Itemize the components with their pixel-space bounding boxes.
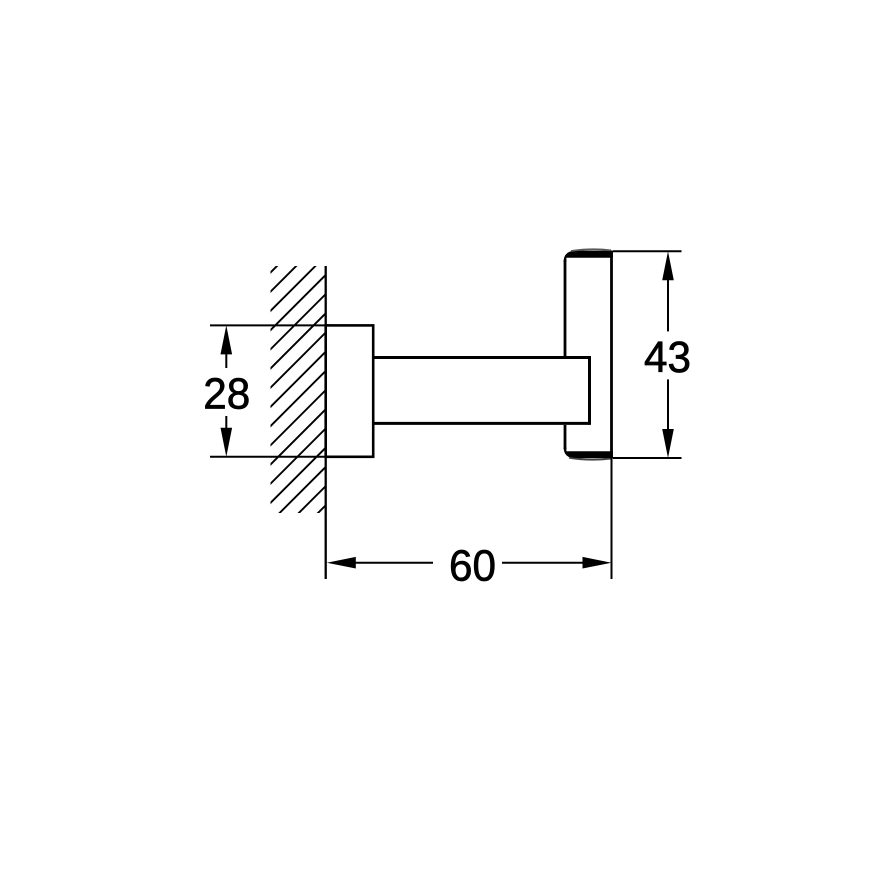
svg-text:60: 60 bbox=[449, 542, 496, 591]
arm bottom line bbox=[373, 422, 589, 425]
arm end cap bbox=[588, 356, 591, 425]
svg-text:43: 43 bbox=[644, 333, 691, 382]
dim 60 right tail bbox=[502, 562, 585, 564]
hook head faint bottom silhouette arc bbox=[569, 458, 611, 460]
dim 28 upper tail bbox=[225, 352, 227, 368]
dim 43 upper tail bbox=[667, 278, 669, 331]
dim 60 right extension line (below hook head) bbox=[611, 458, 613, 579]
hook head left edge lower segment bbox=[564, 425, 567, 449]
dim 43 extension line top bbox=[613, 250, 682, 252]
dim 60 left tail bbox=[353, 562, 433, 564]
svg-text:28: 28 bbox=[203, 370, 250, 419]
dim 43 lower tail bbox=[667, 379, 669, 431]
wall line (also left extension line of 60 dim) bbox=[325, 266, 327, 579]
hook head right edge bbox=[610, 251, 613, 459]
hook head faint top silhouette arc bbox=[571, 249, 611, 251]
wall hatching bbox=[0, 180, 651, 560]
dim 28 upper arrow bbox=[221, 325, 233, 354]
hook head top edge band with rounded left corner bbox=[564, 251, 613, 262]
dim 28 lower arrow bbox=[221, 428, 233, 457]
mounting plate bbox=[326, 325, 374, 456]
dim 43 upper arrow bbox=[662, 251, 674, 280]
dim 28 lower tail bbox=[225, 416, 227, 430]
dim 43 extension line bottom bbox=[613, 457, 682, 459]
arm top line bbox=[373, 356, 589, 359]
hook head left edge upper segment bbox=[564, 260, 567, 356]
dim 28 extension line bottom bbox=[210, 456, 330, 458]
dim 28 extension line top bbox=[210, 324, 330, 326]
dim 60 left arrow bbox=[327, 557, 356, 569]
dim 60 right arrow bbox=[583, 557, 612, 569]
dim 43 lower arrow bbox=[662, 429, 674, 458]
hook head bottom edge band with rounded left corner bbox=[564, 447, 613, 458]
